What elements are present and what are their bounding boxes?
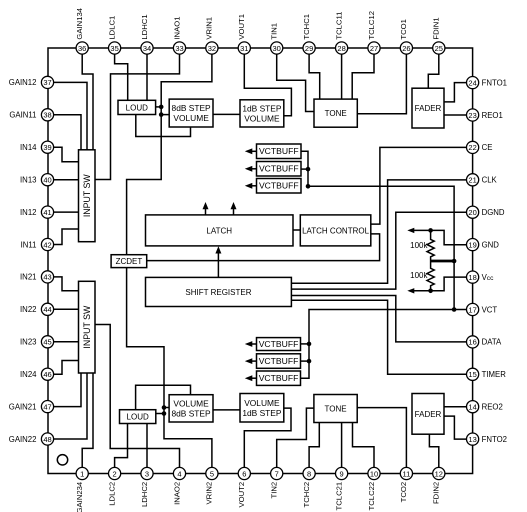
block LATCH [146, 215, 294, 246]
wire INPUT SW2 output to pin4 INAO2 [95, 325, 180, 468]
svg-text:23: 23 [468, 111, 476, 120]
resistor R1 100k (GND to VCT) [427, 230, 434, 261]
pin 17 VCT [467, 303, 498, 315]
svg-text:REO2: REO2 [482, 403, 503, 412]
svg-text:VOLUME: VOLUME [244, 398, 280, 408]
wire LOUD1 output stub [156, 106, 162, 108]
pin 13 FNTO2 [467, 433, 508, 445]
arrow VCTBUFF lower 3 output [251, 377, 257, 379]
svg-text:20: 20 [468, 208, 476, 217]
svg-text:IN13: IN13 [20, 176, 36, 185]
wire LATCH to LATCH CONTROL [293, 229, 300, 231]
svg-text:TCO2: TCO2 [399, 482, 408, 503]
pin 37 GAIN12 [9, 76, 54, 88]
pin 24 FNTO1 [467, 77, 508, 89]
block VOLUME 1dB STEP (channel 2) [240, 394, 284, 423]
pin 45 IN23 [20, 336, 54, 348]
thick VCT mid rail [431, 260, 455, 263]
wire upper VCTBUFF stub 2 [301, 168, 308, 170]
wire pin32 VRIN1 net down to ZCDET top [127, 54, 212, 255]
svg-text:TONE: TONE [325, 404, 347, 413]
svg-text:FNTO1: FNTO1 [482, 78, 507, 87]
svg-text:IN12: IN12 [20, 208, 36, 217]
pin 27 TCLC12 [367, 11, 380, 54]
arrow LATCH output up 2 [233, 208, 235, 215]
svg-text:5: 5 [210, 469, 214, 478]
wire LOUD2 top to VOLUME 8dB top [136, 385, 191, 409]
wire ZCDET output to LATCH CONTROL [147, 234, 380, 261]
wire pin10 TCLC22 to TONE2 bottom [353, 423, 375, 468]
svg-text:TCLC11: TCLC11 [334, 12, 343, 40]
pin 5 VRIN2 [205, 467, 218, 504]
svg-text:TONE: TONE [325, 109, 347, 118]
svg-text:10: 10 [370, 469, 378, 478]
block ZCDET [111, 255, 147, 268]
svg-text:GAIN234: GAIN234 [75, 481, 84, 512]
svg-text:FNTO2: FNTO2 [482, 435, 507, 444]
wire VCTBUFF lower stub 2 [301, 360, 310, 362]
pin 11 TCO2 [399, 467, 412, 502]
wire upper VCTBUFF feed from VCT divider [308, 186, 454, 309]
svg-text:9: 9 [340, 469, 344, 478]
wire pin15 TIMER to SHIFT REGISTER [291, 300, 466, 374]
pin 4 INAO2 [172, 467, 185, 504]
svg-text:VOLUME: VOLUME [173, 113, 209, 123]
svg-text:IN24: IN24 [20, 370, 37, 379]
svg-text:GAIN21: GAIN21 [9, 402, 37, 411]
svg-text:11: 11 [403, 469, 411, 478]
block VCTBUFF lower 2 [257, 354, 301, 369]
svg-text:22: 22 [468, 143, 476, 152]
svg-text:TIN1: TIN1 [270, 23, 279, 40]
pin 22 CE [467, 141, 493, 153]
svg-text:VCTBUFF: VCTBUFF [259, 356, 299, 366]
arrow VCTBUFF lower 2 output [251, 360, 257, 362]
svg-text:1: 1 [80, 469, 84, 478]
svg-text:1dB STEP: 1dB STEP [242, 103, 282, 113]
svg-text:33: 33 [175, 44, 183, 53]
wire pin28 TCLC11 to TONE1 top [341, 54, 343, 99]
svg-text:41: 41 [43, 208, 51, 217]
arrow VCTBUFF lower 1 output [251, 343, 257, 345]
wire FADER2 to pin13 FNTO2 [444, 416, 466, 439]
svg-text:DGND: DGND [482, 208, 505, 217]
svg-text:FADER: FADER [415, 104, 442, 113]
wire pin3 LDHC2 to LOUD2 bottom [146, 424, 148, 468]
wire pin5 VRIN2 net up to ZCDET bottom [127, 268, 212, 468]
pin 39 IN14 [20, 141, 54, 153]
svg-text:VRIN2: VRIN2 [205, 482, 214, 505]
svg-text:8dB STEP: 8dB STEP [172, 103, 212, 113]
block LOUD (channel 2) [120, 410, 156, 424]
junction lower VCTBUFF 1 [307, 342, 312, 347]
wire pin22 CE to LATCH CONTROL [371, 147, 467, 224]
pin 10 TCLC22 [367, 467, 380, 510]
svg-text:13: 13 [468, 435, 476, 444]
svg-text:VOUT2: VOUT2 [237, 482, 246, 508]
arrow VCTBUFF upper 2 output [251, 168, 257, 170]
block FADER (channel 1) [412, 88, 444, 128]
junction Vcc rail/R2 [428, 289, 433, 294]
svg-text:VOLUME: VOLUME [173, 398, 209, 408]
block VCTBUFF upper 1 [257, 144, 302, 159]
svg-text:38: 38 [43, 111, 51, 120]
svg-text:34: 34 [143, 44, 151, 53]
svg-text:FDIN2: FDIN2 [432, 482, 441, 504]
pin 18 Vcc [467, 271, 495, 283]
svg-text:14: 14 [468, 403, 476, 412]
pin 6 VOUT2 [237, 467, 250, 507]
block TONE (channel 1) [314, 99, 357, 127]
arrow VCTBUFF upper 3 output [251, 185, 257, 187]
svg-text:ZCDET: ZCDET [116, 257, 143, 266]
svg-text:VCT: VCT [482, 305, 498, 314]
svg-text:GAIN11: GAIN11 [9, 111, 36, 120]
svg-text:LATCH CONTROL: LATCH CONTROL [302, 226, 370, 235]
svg-text:18: 18 [468, 273, 476, 282]
pin 46 IN24 [20, 368, 54, 380]
junction VRIN1/LOUD1 out [159, 105, 164, 110]
pin 26 TCO1 [399, 19, 412, 54]
svg-text:TCLC12: TCLC12 [367, 11, 376, 40]
pin 1 GAIN234 [75, 467, 88, 512]
svg-text:DATA: DATA [482, 338, 502, 347]
block FADER (channel 2) [412, 394, 444, 435]
block SHIFT REGISTER [146, 277, 292, 306]
wire upper VCTBUFF right bus [301, 151, 308, 186]
junction VRIN2/8dB in [162, 405, 167, 410]
pin 2 LDLC2 [107, 467, 120, 505]
pin 3 LDHC2 [140, 467, 153, 507]
svg-text:26: 26 [402, 44, 410, 53]
svg-text:TCO1: TCO1 [399, 19, 408, 40]
wire pin9 TCLC21 to TONE2 bottom [341, 423, 343, 468]
svg-text:37: 37 [43, 78, 51, 87]
arrow LATCH output up 1 [205, 208, 207, 215]
svg-text:TCLC22: TCLC22 [367, 482, 376, 511]
svg-text:8dB STEP: 8dB STEP [171, 408, 211, 418]
block VCTBUFF lower 1 [257, 338, 301, 351]
pin 7 TIN2 [270, 467, 283, 498]
pin 32 VRIN1 [205, 17, 218, 54]
wire VRIN node to 8dB STEP VOLUME input [161, 114, 169, 116]
svg-text:VCTBUFF: VCTBUFF [259, 373, 299, 383]
junction upper VCTBUFF 2 [306, 167, 311, 172]
wire pin20 DGND to SHIFT REGISTER [291, 212, 466, 289]
svg-text:36: 36 [78, 44, 86, 53]
block VCTBUFF lower 3 [257, 371, 301, 385]
junction VCT line [452, 307, 457, 312]
wire pin45 IN23 to INPUT SW2 [54, 341, 79, 343]
wire pin41 IN12 to INPUT SW [54, 211, 79, 213]
svg-text:INAO2: INAO2 [172, 482, 181, 505]
svg-text:47: 47 [43, 402, 51, 411]
svg-text:VRIN1: VRIN1 [205, 17, 214, 40]
wire VCTBUFF lower stub 1 [301, 343, 310, 345]
wire pin40 IN13 to INPUT SW [54, 179, 79, 181]
wire pin29 TCHC1 to TONE1 top [309, 54, 320, 99]
svg-text:FDIN1: FDIN1 [432, 17, 441, 39]
pin 16 DATA [467, 336, 503, 348]
svg-text:27: 27 [370, 44, 378, 53]
svg-text:35: 35 [110, 44, 118, 53]
pin 40 IN13 [20, 174, 54, 186]
wire 8dB VOLUME2 out to 1dB VOLUME2 in [213, 409, 240, 411]
svg-text:16: 16 [468, 338, 476, 347]
junction VCT divider mid [452, 259, 457, 264]
pin 15 TIMER [467, 368, 507, 380]
wire pin46 IN24 to INPUT SW2 [54, 361, 79, 375]
wire pin21 CLK to SHIFT REGISTER [291, 180, 466, 283]
block VCTBUFF upper 3 [257, 179, 302, 194]
wire pin27 TCLC12 to TONE1 top [352, 54, 374, 99]
svg-text:TIMER: TIMER [482, 370, 507, 379]
svg-text:42: 42 [43, 240, 51, 249]
svg-text:24: 24 [468, 78, 476, 87]
svg-text:12: 12 [435, 469, 443, 478]
svg-text:GND: GND [482, 240, 500, 249]
block LATCH CONTROL [300, 215, 371, 246]
pin 33 INAO1 [172, 17, 185, 55]
svg-text:3: 3 [145, 469, 149, 478]
svg-text:17: 17 [468, 305, 476, 314]
block VOLUME 8dB STEP (channel 2) [169, 395, 213, 422]
svg-text:VCTBUFF: VCTBUFF [259, 339, 299, 349]
svg-text:21: 21 [468, 176, 476, 185]
svg-text:LOUD: LOUD [127, 413, 149, 422]
svg-text:32: 32 [208, 44, 216, 53]
svg-text:6: 6 [242, 469, 246, 478]
pin 23 REO1 [467, 109, 503, 121]
wire TONE1 out to pin26 TCO1 [358, 54, 407, 114]
pin 48 GAIN22 [9, 433, 54, 445]
svg-text:VCTBUFF: VCTBUFF [259, 164, 299, 174]
svg-text:IN11: IN11 [21, 240, 37, 249]
svg-text:LDHC1: LDHC1 [140, 14, 149, 39]
wire VRIN2 node to VOLUME 8dB input [164, 407, 169, 409]
svg-text:GAIN12: GAIN12 [9, 78, 37, 87]
wire pin37 GAIN12 to INPUT SW top [54, 82, 87, 149]
svg-text:Vcc: Vcc [482, 273, 495, 282]
block 8dB STEP VOLUME (channel 1) [169, 99, 213, 127]
svg-text:VCTBUFF: VCTBUFF [259, 146, 299, 156]
pin 8 TCHC2 [302, 467, 315, 507]
svg-text:GAIN134: GAIN134 [75, 7, 84, 39]
svg-text:VCTBUFF: VCTBUFF [259, 181, 299, 191]
wire pin34 LDHC1 to LOUD top [146, 54, 148, 100]
pin 47 GAIN21 [9, 401, 54, 413]
wire pin35 LDLC1 to LOUD top [115, 54, 128, 100]
wire pin38 GAIN11 to INPUT SW top [54, 115, 81, 150]
svg-text:45: 45 [43, 338, 51, 347]
svg-text:TCHC1: TCHC1 [302, 14, 311, 40]
pin 31 VOUT1 [237, 14, 250, 54]
wire pin18 Vcc to resistor rail [414, 277, 467, 291]
pin 14 REO2 [467, 401, 503, 413]
block VCTBUFF upper 2 [257, 162, 302, 177]
pin 21 CLK [467, 174, 498, 186]
svg-text:19: 19 [468, 240, 476, 249]
svg-text:SHIFT REGISTER: SHIFT REGISTER [185, 288, 251, 297]
svg-text:GAIN22: GAIN22 [9, 435, 37, 444]
svg-text:CE: CE [482, 143, 493, 152]
svg-text:28: 28 [337, 44, 345, 53]
wire pin17 VCT line to lower VCTBUFF stack [301, 310, 467, 379]
svg-text:100k: 100k [410, 241, 428, 250]
svg-text:INAO1: INAO1 [172, 17, 181, 40]
svg-text:IN21: IN21 [20, 273, 36, 282]
svg-text:2: 2 [113, 469, 117, 478]
junction upper VCTBUFF 3 [306, 184, 311, 189]
svg-text:INPUT SW: INPUT SW [82, 174, 92, 218]
svg-text:LOUD: LOUD [126, 103, 148, 112]
resistor R2 100k (VCT to Vcc) [427, 261, 434, 291]
arrow on GND rail [407, 228, 414, 233]
wire pin8 TCHC2 to TONE2 bottom [309, 423, 319, 468]
svg-text:25: 25 [435, 44, 443, 53]
block TONE (channel 2) [314, 395, 357, 423]
svg-text:INPUT SW: INPUT SW [82, 305, 92, 349]
wire FADER1 out to pin23 REO1 [444, 114, 466, 116]
wire pin7 TIN2 to TONE2 left [277, 408, 314, 467]
pin 20 DGND [467, 206, 505, 218]
junction GND rail/R1 [428, 228, 433, 233]
pin 36 GAIN134 [75, 7, 88, 54]
pin 35 LDLC1 [107, 16, 120, 54]
wire pin6 VOUT2 to 1dB VOLUME2 out [244, 408, 291, 467]
block INPUT SW (channel 1) [79, 150, 96, 242]
svg-text:30: 30 [273, 44, 281, 53]
wire INPUT SW1 output to pin33 INAO1 [95, 54, 180, 180]
svg-text:8: 8 [307, 469, 311, 478]
junction VRIN1/8dB in [159, 112, 164, 117]
wire pin44 IN22 to INPUT SW2 [54, 308, 79, 310]
wire pin47 GAIN21 to INPUT SW2 bottom [54, 373, 81, 407]
pin 9 TCLC21 [334, 467, 347, 510]
wire pin12 FDIN2 to FADER2 bottom [429, 434, 438, 467]
svg-text:LDLC2: LDLC2 [107, 482, 116, 506]
wire pin42 IN11 to INPUT SW [54, 229, 79, 245]
wire FADER1 to pin24 FNTO1 [444, 83, 466, 102]
pin 38 GAIN11 [9, 109, 53, 121]
svg-text:4: 4 [177, 469, 181, 478]
pin 41 IN12 [20, 206, 54, 218]
svg-text:39: 39 [43, 143, 51, 152]
pin 30 TIN1 [270, 23, 283, 54]
wire pin19 GND to resistor rail [414, 230, 467, 244]
wire 8dB VOLUME out to 1dB VOLUME in [213, 113, 240, 115]
pin 42 IN11 [21, 238, 54, 250]
wire pin2 LDLC2 to LOUD2 bottom [115, 424, 128, 468]
svg-text:40: 40 [43, 176, 51, 185]
svg-text:100k: 100k [410, 271, 428, 280]
svg-text:1dB STEP: 1dB STEP [242, 408, 282, 418]
pin 12 FDIN2 [432, 467, 445, 504]
wire pin25 FDIN1 to FADER1 top [428, 54, 439, 88]
svg-text:LDLC1: LDLC1 [107, 16, 116, 40]
pin 44 IN22 [20, 303, 54, 315]
pin 34 LDHC1 [140, 14, 153, 54]
svg-text:IN14: IN14 [20, 143, 37, 152]
svg-text:VOUT1: VOUT1 [237, 14, 246, 40]
wire pin1 GAIN234 to INPUT SW2 bottom [82, 373, 93, 468]
svg-text:LDHC2: LDHC2 [140, 482, 149, 507]
wire LOUD1 bottom to 8dB VOLUME bottom [136, 115, 191, 137]
svg-text:LATCH: LATCH [206, 226, 232, 235]
block INPUT SW (channel 2) [79, 281, 96, 373]
wire pin16 DATA to SHIFT REGISTER [291, 296, 466, 342]
wire 1dB VOLUME out to pin31 VOUT1 [244, 54, 291, 116]
wire FADER2 out to pin14 REO2 [444, 406, 466, 408]
pin 19 GND [467, 239, 500, 251]
svg-text:TCLC21: TCLC21 [334, 482, 343, 511]
wire pin36 GAIN134 to INPUT SW top [82, 54, 93, 150]
block 1dB STEP VOLUME (channel 1) [240, 100, 284, 127]
IC package border [48, 48, 473, 474]
arrow VCTBUFF upper 1 output [251, 150, 257, 152]
wire pin30 TIN1 to TONE1 left [277, 54, 314, 112]
junction lower VCTBUFF 2 [307, 359, 312, 364]
block LOUD (channel 1) [118, 100, 156, 114]
svg-text:FADER: FADER [415, 410, 442, 419]
svg-text:TCHC2: TCHC2 [302, 482, 311, 508]
svg-text:CLK: CLK [482, 176, 498, 185]
pin 28 TCLC11 [334, 12, 347, 55]
pin 25 FDIN1 [432, 17, 445, 54]
pin 1 indicator circle [57, 455, 67, 465]
svg-text:REO1: REO1 [482, 111, 503, 120]
wire pin48 GAIN22 to INPUT SW2 bottom [54, 373, 87, 439]
wire pin39 IN14 to INPUT SW [54, 147, 79, 162]
pin 43 IN21 [20, 271, 54, 283]
svg-text:43: 43 [43, 273, 51, 282]
svg-text:31: 31 [240, 44, 248, 53]
junction VRIN2/LOUD2 out [162, 411, 167, 416]
svg-text:48: 48 [43, 435, 51, 444]
wire TONE2 out to pin11 TCO2 [357, 408, 406, 468]
wire LOUD2 output stub [156, 413, 164, 415]
arrow on Vcc rail [407, 288, 414, 293]
svg-text:7: 7 [275, 469, 279, 478]
svg-text:TIN2: TIN2 [270, 482, 279, 499]
svg-text:IN22: IN22 [20, 305, 36, 314]
svg-text:29: 29 [305, 44, 313, 53]
pin 29 TCHC1 [302, 14, 315, 54]
svg-text:IN23: IN23 [20, 338, 36, 347]
svg-text:15: 15 [468, 370, 476, 379]
svg-text:VOLUME: VOLUME [244, 113, 280, 123]
svg-text:46: 46 [43, 370, 51, 379]
svg-text:44: 44 [43, 305, 51, 314]
arrow SHIFT REGISTER to LATCH [217, 253, 219, 278]
wire pin43 IN21 to INPUT SW2 [54, 277, 79, 291]
